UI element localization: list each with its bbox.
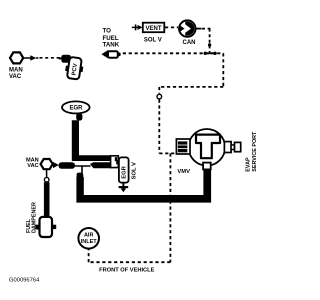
svg-text:INLET: INLET [81, 239, 98, 245]
svg-text:DAMPENER: DAMPENER [32, 202, 38, 233]
svg-text:MAN: MAN [9, 67, 23, 73]
svg-text:VMV: VMV [177, 169, 190, 175]
svg-text:TANK: TANK [103, 41, 120, 48]
solenoid VENT SOL V [143, 23, 165, 33]
svg-text:EGR: EGR [69, 106, 83, 112]
svg-text:VAC: VAC [27, 163, 38, 169]
wire: dashed vertical down to VMV [158, 87, 160, 94]
svg-text:SERVICE PORT: SERVICE PORT [252, 131, 258, 172]
svg-text:TO: TO [103, 28, 112, 35]
connector: stepped fitting at EGR SOL V [111, 156, 119, 168]
svg-text:AIR: AIR [84, 233, 94, 239]
connector: nub below EGR [76, 113, 82, 120]
svg-text:SOL V: SOL V [144, 37, 162, 43]
wire: vertical dashed from CAN corner down to tee [209, 29, 211, 53]
damper FUEL DAMPENER [35, 225, 40, 230]
svg-text:G00096764: G00096764 [9, 277, 40, 283]
node: tee dots [204, 52, 216, 54]
label TO FUEL TANK [103, 28, 120, 49]
wire: dashed horizontal front-of-vehicle [89, 261, 171, 263]
node: open circle connector [157, 94, 162, 99]
wire: arrow into VENT SOL V [132, 24, 140, 30]
hose: drop down + main hose to VMV [76, 169, 211, 202]
node: connector dot on vertical [208, 43, 211, 46]
source MAN VAC (middle) [41, 159, 53, 169]
valve EGR (ellipse) [62, 101, 90, 113]
wire: thin line to long connector [75, 165, 91, 167]
wire: dashed right corner down [222, 53, 224, 87]
valve VMV [176, 129, 258, 175]
connector: long black connector into EGR SOL V [90, 162, 111, 168]
wire: dashed horizontal right-to-left at y 87 [159, 86, 223, 88]
valve PCV [59, 55, 85, 80]
wire: dashed to PCV [40, 57, 61, 59]
svg-text:CAN: CAN [183, 40, 196, 46]
wire: CAN to corner [196, 28, 202, 30]
wire: arrow from MAN VAC to coupling [53, 162, 59, 168]
wire: line + arrow from MAN VAC [24, 57, 32, 59]
vent symbol below EGR SOL V [122, 183, 124, 189]
svg-text:VENT: VENT [145, 26, 161, 32]
junction: tee down from man vac line [81, 166, 83, 173]
wire: dashed into VMV connector [159, 152, 176, 154]
connector: TO FUEL TANK arrow [101, 50, 108, 59]
wire: horizontal dashed tank line [123, 52, 224, 54]
hose: to fuel dampener [44, 182, 50, 217]
wire: dashed VENT to CAN [165, 26, 178, 28]
svg-text:EGR: EGR [122, 165, 128, 178]
solenoid EGR SOL V [119, 157, 129, 182]
connector: black oval coupling [59, 162, 76, 169]
svg-text:SOL V: SOL V [131, 162, 137, 179]
source MAN VAC (top) [10, 52, 23, 63]
port EVAP service port [224, 142, 231, 153]
wire: dashed vertical down front-of-vehicle [169, 153, 171, 262]
hose: EGR down and right to EGR SOL V [72, 120, 111, 161]
svg-text:EVAP: EVAP [246, 157, 252, 172]
svg-text:FRONT OF VEHICLE: FRONT OF VEHICLE [99, 267, 155, 273]
connector: VMV bottom stem [203, 163, 211, 170]
source MAN VAC (middle) stem to fuel dampener [46, 170, 48, 178]
wire: dashed vertical to air inlet [88, 249, 90, 263]
connector: VMV left port [176, 139, 190, 154]
canister CAN [179, 20, 195, 46]
svg-text:VAC: VAC [9, 74, 22, 80]
port AIR INLET [78, 228, 99, 249]
